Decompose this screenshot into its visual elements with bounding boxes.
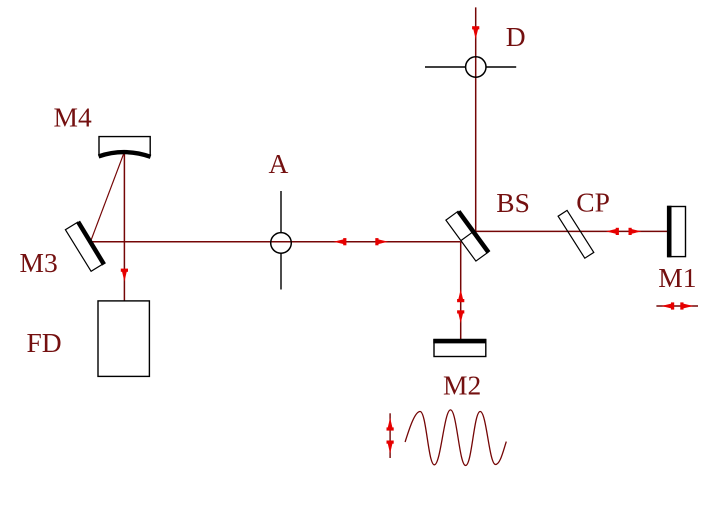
svg-text:D: D — [506, 21, 526, 52]
double arrow (M2 vibration) left of sine wave — [387, 413, 394, 458]
label A — [269, 148, 289, 179]
svg-text:M1: M1 — [658, 262, 696, 293]
wire beam M4 to M3 (diagonal) — [91, 152, 125, 242]
label M2 — [443, 370, 481, 401]
label D — [506, 21, 526, 52]
sine wave of M2 motion — [405, 410, 506, 466]
wire beam BS down to mirror M2 — [460, 242, 462, 340]
arrow down into FD — [121, 269, 128, 282]
wire beam from source to detector D (vertical) — [475, 7, 477, 231]
svg-text:CP: CP — [576, 186, 610, 217]
svg-text:M4: M4 — [54, 102, 92, 133]
detector D — [425, 57, 516, 77]
arrow up below BS — [457, 289, 464, 302]
label M4 — [54, 102, 92, 133]
svg-text:M2: M2 — [443, 370, 481, 401]
svg-text:FD: FD — [27, 327, 62, 358]
wire beam M4 down to photodetector FD — [123, 152, 125, 301]
compensation plate CP — [558, 210, 594, 258]
arrow down above M2 — [457, 310, 464, 323]
svg-text:M3: M3 — [20, 247, 58, 278]
arrow down into detector D — [472, 26, 479, 39]
mirror M2 — [433, 340, 486, 357]
wire main beam M3 to BS through aperture A — [91, 241, 461, 243]
arrow left on main beam — [333, 238, 346, 245]
photodetector FD box — [98, 301, 149, 377]
svg-text:BS: BS — [496, 187, 530, 218]
mirror M3 — [65, 222, 104, 271]
label FD — [27, 327, 62, 358]
beam splitter BS — [446, 211, 489, 261]
label CP — [576, 186, 610, 217]
label M3 — [20, 247, 58, 278]
label M1 — [658, 262, 696, 293]
wire beam BS to mirror M1 (horizontal) — [476, 230, 668, 232]
label BS — [496, 187, 530, 218]
mirror M4 (curved) — [99, 137, 151, 157]
mirror M1 — [668, 206, 686, 257]
svg-text:A: A — [269, 148, 289, 179]
double arrow (M1 translation) below M1 label — [656, 302, 698, 309]
aperture A — [271, 191, 292, 290]
arrow right on CP-M1 beam — [629, 228, 642, 235]
arrow right on main beam — [375, 238, 388, 245]
arrow left on CP-M1 beam — [606, 228, 619, 235]
